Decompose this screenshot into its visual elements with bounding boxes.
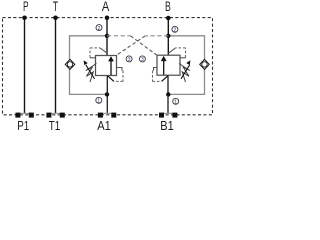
- pilot line A to right valve (dashed): [107, 35, 131, 37]
- subplate port P1 symbol: [15, 113, 33, 118]
- relief valve left: spring: [86, 64, 97, 83]
- callout circle 2 left: [96, 25, 102, 32]
- node B lower junction: [166, 92, 170, 96]
- subplate port T1 symbol: [46, 113, 64, 118]
- measuring coupling diamond right: [200, 59, 210, 69]
- svg-text:A1: A1: [97, 118, 111, 133]
- svg-text:3: 3: [128, 57, 131, 63]
- wire P line: [24, 18, 26, 113]
- svg-text:A: A: [102, 0, 110, 14]
- svg-text:T: T: [53, 0, 59, 14]
- callout circle 1 left: [96, 97, 102, 104]
- svg-text:3: 3: [141, 57, 144, 63]
- relief valve right: drain step: [154, 68, 158, 71]
- wire B line upper: [167, 18, 169, 55]
- svg-text:B: B: [165, 0, 171, 14]
- subplate port A1 symbol: [98, 113, 116, 118]
- relief valve left: adjustment arrow: [84, 60, 95, 79]
- relief valve right: body: [157, 55, 180, 75]
- wire right bypass loop: [168, 36, 204, 95]
- relief valve left: body: [96, 56, 117, 76]
- relief valve right: pilot hook: [168, 48, 185, 58]
- node T junction: [53, 15, 58, 20]
- wire B line lower: [167, 75, 169, 113]
- node A junction: [105, 15, 110, 20]
- relief valve right: drain diagonal: [162, 76, 168, 82]
- relief valve left: drain step: [117, 68, 123, 71]
- node A lower junction: [105, 92, 109, 96]
- relief valve right: adjustment arrow: [181, 60, 190, 79]
- node B upper junction: [166, 34, 170, 38]
- svg-text:B1: B1: [160, 118, 173, 133]
- wire A line upper: [106, 18, 108, 56]
- svg-text:1: 1: [174, 100, 177, 106]
- svg-text:2: 2: [98, 26, 101, 32]
- measuring coupling diamond left: [65, 59, 75, 69]
- svg-text:1: 1: [97, 99, 100, 105]
- svg-text:2: 2: [174, 28, 177, 34]
- callout circle 1 right: [173, 98, 179, 105]
- wire A line lower: [106, 76, 108, 114]
- relief valve left: flow arrow: [108, 56, 114, 75]
- node P junction: [22, 15, 27, 20]
- enclosure dashed boundary: [3, 18, 213, 115]
- wire left bypass loop: [70, 36, 108, 95]
- relief valve right: spring: [179, 64, 190, 83]
- relief valve left: pilot hook: [90, 48, 107, 58]
- relief valve left: drain dashed loop: [114, 71, 123, 82]
- node A upper junction: [105, 34, 109, 38]
- relief valve right: flow arrow: [161, 56, 167, 75]
- wire T line: [55, 18, 57, 113]
- callout circle 2 right: [172, 26, 178, 33]
- pilot line B to left valve (dashed): [145, 35, 168, 37]
- callout circle 3 right: [139, 56, 145, 63]
- svg-text:P1: P1: [17, 118, 29, 133]
- subplate port B1 symbol: [159, 113, 177, 118]
- relief valve left: drain diagonal: [108, 76, 114, 82]
- node B junction: [166, 16, 171, 21]
- relief valve right: drain dashed loop: [153, 71, 162, 82]
- svg-text:T1: T1: [49, 118, 61, 133]
- svg-text:P: P: [23, 0, 29, 14]
- callout circle 3 left: [126, 56, 132, 63]
